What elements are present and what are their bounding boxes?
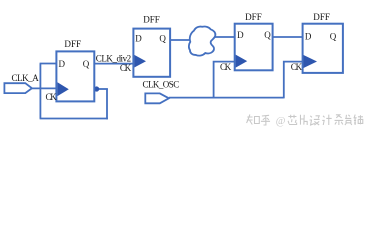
wire CLK_OSC horizontal trunk bbox=[169, 97, 284, 99]
svg-text:D: D bbox=[237, 30, 244, 40]
cloud (combinational logic blob) bbox=[189, 27, 216, 56]
clock triangle U4 bbox=[304, 55, 318, 68]
input port CLK_A bbox=[4, 83, 32, 93]
wire feedback right riser bbox=[106, 89, 108, 120]
net label CLK_div2 bbox=[96, 53, 131, 63]
body U2 bbox=[133, 29, 170, 77]
svg-text:CK: CK bbox=[46, 92, 58, 102]
svg-text:DFF: DFF bbox=[245, 12, 262, 22]
svg-text:CLK_div2: CLK_div2 bbox=[96, 53, 131, 63]
clock triangle U3 bbox=[236, 55, 248, 68]
svg-text:D: D bbox=[59, 59, 66, 69]
svg-text:Q: Q bbox=[83, 59, 90, 69]
net label CLK_A bbox=[12, 73, 40, 83]
svg-text:CK: CK bbox=[291, 62, 303, 72]
svg-text:D: D bbox=[305, 31, 312, 41]
watermark 知乎 @芯片设计杂货铺 (vector approximation) bbox=[247, 115, 363, 126]
flip-flop U3 DFF bbox=[220, 12, 273, 72]
svg-text:CK: CK bbox=[120, 63, 132, 73]
flip-flop U1 DFF bbox=[46, 39, 95, 102]
svg-text:@: @ bbox=[276, 116, 286, 127]
flip-flop U2 DFF bbox=[120, 15, 170, 77]
svg-text:DFF: DFF bbox=[64, 39, 81, 49]
svg-text:CK: CK bbox=[220, 62, 232, 72]
wire riser CLK_OSC to U3 CK bbox=[214, 62, 235, 98]
wire U3 Q to U4 pin D bbox=[273, 36, 303, 38]
wire U1 Q to U2 CK (net CLK_div2) bbox=[94, 63, 133, 65]
svg-text:D: D bbox=[135, 33, 142, 43]
wire feedback into U1 pin D bbox=[40, 63, 57, 65]
watermark @ sign bbox=[276, 116, 286, 127]
body U1 bbox=[56, 51, 94, 101]
clock triangle U1 bbox=[57, 82, 68, 96]
wire CLK_A port to U1 CK bbox=[32, 87, 57, 89]
body U3 bbox=[235, 24, 273, 71]
svg-text:CLK_OSC: CLK_OSC bbox=[143, 80, 180, 90]
svg-text:DFF: DFF bbox=[313, 12, 330, 22]
wire riser CLK_OSC to U4 CK bbox=[284, 62, 303, 99]
svg-text:CLK_A: CLK_A bbox=[12, 73, 40, 83]
wire feedback bottom segment bbox=[40, 118, 108, 120]
input port CLK_OSC bbox=[145, 93, 169, 103]
body U4 bbox=[303, 24, 343, 73]
net label CLK_OSC bbox=[143, 80, 180, 90]
wire cloud to U3 pin D bbox=[215, 36, 235, 38]
junction dot on U1 QN bbox=[94, 86, 99, 91]
wire U1 QN stub to feedback bbox=[97, 88, 108, 90]
svg-text:Q: Q bbox=[159, 33, 166, 43]
flip-flop U4 DFF bbox=[291, 12, 343, 73]
clock triangle U2 bbox=[134, 55, 146, 68]
wire U2 Q to cloud bbox=[170, 39, 190, 41]
svg-text:DFF: DFF bbox=[143, 15, 160, 25]
svg-text:Q: Q bbox=[264, 30, 271, 40]
svg-text:Q: Q bbox=[330, 31, 337, 41]
wire feedback left riser bbox=[39, 64, 41, 119]
